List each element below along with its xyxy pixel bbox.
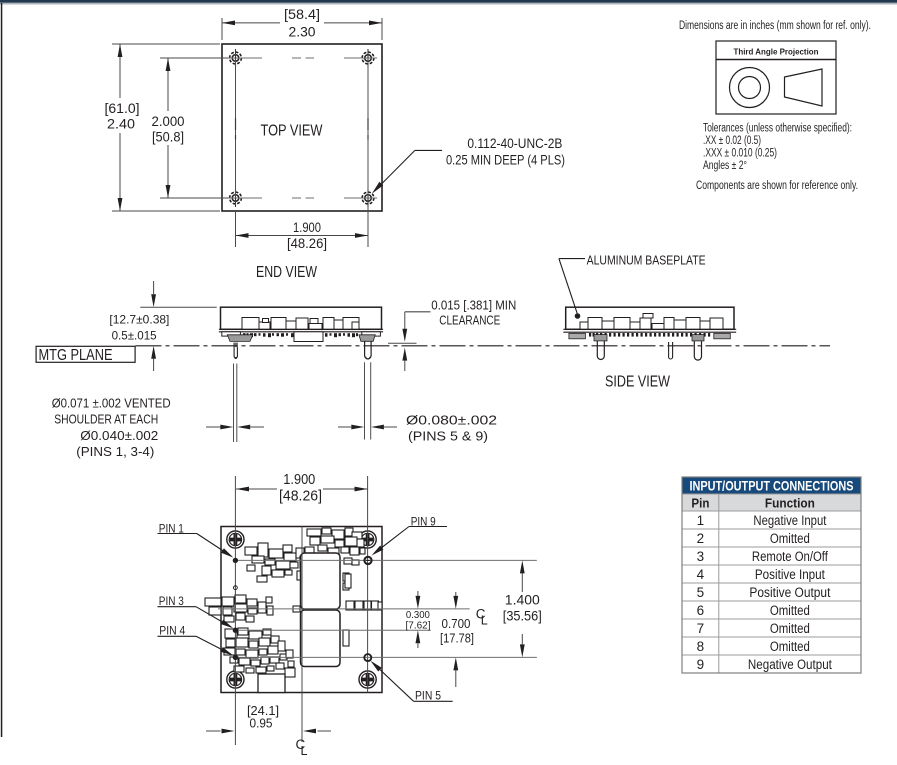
svg-text:Positive Output: Positive Output — [749, 585, 830, 600]
svg-text:Positive Input: Positive Input — [755, 567, 825, 582]
svg-text:Negative Output: Negative Output — [748, 657, 832, 672]
pin 4 pad — [233, 655, 238, 660]
svg-text:0.015 [.381] MIN: 0.015 [.381] MIN — [431, 299, 516, 313]
end view pin 9 (0.080 dia) — [359, 335, 375, 440]
dimension [61.0] 2.40 — [102, 44, 220, 211]
bottom connector block — [258, 674, 285, 693]
mounting hole bottom-right (top view) — [359, 189, 377, 207]
svg-text:SHOULDER AT EACH: SHOULDER AT EACH — [54, 412, 158, 427]
end view pin 1 (0.040 dia) — [227, 335, 253, 442]
pin 5 pad — [364, 654, 371, 661]
vertical line through pins 1,3,4 — [234, 476, 236, 745]
svg-text:PIN 5: PIN 5 — [415, 691, 441, 703]
dimension 2.000 [50.8] — [149, 58, 228, 198]
mounting hole bottom-left (top view) — [227, 189, 245, 207]
svg-text:[48.26]: [48.26] — [279, 489, 322, 505]
svg-text:Pin: Pin — [691, 496, 709, 511]
label PIN 3 with leader — [158, 596, 234, 629]
svg-text:[50.8]: [50.8] — [152, 130, 184, 145]
svg-text:[48.26]: [48.26] — [287, 236, 327, 251]
svg-text:3: 3 — [697, 549, 705, 564]
mounting hole top-left (top view) — [227, 49, 245, 67]
centerline symbol right — [476, 607, 488, 628]
center lines top view — [236, 58, 369, 198]
label PIN 1 with leader — [158, 523, 234, 557]
dimension pin 9 diameter arrows — [338, 425, 397, 430]
side view pin left — [594, 335, 607, 360]
svg-text:L: L — [481, 614, 488, 628]
svg-text:[17.78]: [17.78] — [440, 631, 474, 646]
svg-text:0.95: 0.95 — [250, 716, 273, 731]
side view solder pads — [589, 333, 710, 337]
svg-text:L: L — [301, 744, 308, 758]
transformer outline — [301, 553, 341, 667]
dimension 0.015 min clearance — [388, 299, 516, 372]
MTG plane line — [136, 345, 831, 347]
svg-text:Ø0.080±.002: Ø0.080±.002 — [406, 413, 497, 428]
svg-text:END VIEW: END VIEW — [256, 264, 317, 281]
side view flange — [563, 329, 736, 339]
svg-text:0.112-40-UNC-2B: 0.112-40-UNC-2B — [467, 136, 562, 151]
end view solder pads under flange — [243, 333, 358, 337]
svg-text:1.900: 1.900 — [283, 472, 315, 488]
end view flange — [219, 329, 383, 341]
dimension 0.700 [17.78] — [440, 592, 474, 687]
dimension [58.4] 2.30 — [222, 6, 382, 40]
svg-text:Components are shown for refer: Components are shown for reference only. — [696, 180, 858, 192]
mounting screw bottom-left (bottom view) — [227, 671, 244, 688]
svg-text:[61.0]: [61.0] — [105, 101, 140, 116]
svg-text:Dimensions are in inches (mm s: Dimensions are in inches (mm shown for r… — [679, 20, 871, 32]
svg-text:SIDE VIEW: SIDE VIEW — [605, 374, 670, 391]
svg-text:PIN 3: PIN 3 — [159, 596, 184, 608]
svg-text:CLEARANCE: CLEARANCE — [439, 314, 500, 328]
label PIN 5 with leader — [371, 661, 453, 703]
svg-text:Omitted: Omitted — [770, 639, 810, 654]
svg-text:9: 9 — [697, 657, 705, 672]
side view pin right — [692, 335, 704, 360]
side view module body — [566, 307, 734, 329]
svg-text:Omitted: Omitted — [770, 621, 810, 636]
dimension pin 1 diameter arrows — [206, 425, 264, 430]
svg-text:[12.7±0.38]: [12.7±0.38] — [109, 313, 169, 327]
svg-text:Negative Input: Negative Input — [753, 513, 826, 528]
mounting hole top-right (top view) — [359, 49, 377, 67]
svg-text:0.700: 0.700 — [442, 616, 471, 631]
svg-text:TOP VIEW: TOP VIEW — [261, 123, 323, 140]
vertical centerline bottom view — [301, 527, 303, 743]
svg-text:[35.56]: [35.56] — [503, 609, 542, 624]
svg-text:0.5±.015: 0.5±.015 — [112, 329, 157, 343]
callout aluminum baseplate — [559, 253, 706, 319]
dimension 1.400 [35.56] — [503, 560, 542, 657]
svg-text:(PINS 1, 3-4): (PINS 1, 3-4) — [76, 444, 154, 459]
svg-text:ALUMINUM BASEPLATE: ALUMINUM BASEPLATE — [587, 253, 706, 268]
svg-text:1.400: 1.400 — [505, 593, 540, 608]
svg-text:5: 5 — [697, 585, 705, 600]
svg-text:2.40: 2.40 — [107, 117, 135, 132]
svg-text:(PINS 5 & 9): (PINS 5 & 9) — [408, 429, 488, 444]
svg-text:Function: Function — [765, 496, 815, 511]
end view module body — [221, 307, 382, 329]
bottom view outline — [221, 527, 382, 693]
svg-text:Third Angle Projection: Third Angle Projection — [734, 47, 819, 57]
svg-text:PIN 4: PIN 4 — [159, 626, 186, 638]
dimension 0.300 [7.62] — [406, 591, 431, 648]
pin 3 pad — [233, 628, 238, 633]
centerline symbol bottom — [296, 737, 308, 758]
svg-text:1: 1 — [697, 513, 705, 528]
side view pin middle — [669, 342, 673, 359]
bottom view component clusters — [205, 528, 382, 677]
tolerances note — [703, 123, 852, 173]
callout 0.080 dia text — [406, 413, 497, 444]
svg-text:1.900: 1.900 — [293, 220, 321, 235]
svg-text:4: 4 — [697, 567, 705, 582]
MTG PLANE label box — [36, 346, 135, 364]
third angle projection box — [716, 41, 836, 114]
dimension 1.900 [48.26] bottom view — [236, 471, 368, 505]
label PIN 4 with leader — [158, 626, 234, 656]
svg-text:0.25 MIN DEEP (4 PLS): 0.25 MIN DEEP (4 PLS) — [446, 153, 565, 168]
label PIN 9 with leader — [372, 516, 448, 555]
dimension [12.7] 0.5 module height — [109, 281, 216, 371]
dimension 1.900 [48.26] top view — [236, 204, 369, 251]
svg-text:Ø0.040±.002: Ø0.040±.002 — [80, 428, 158, 443]
svg-text:INPUT/OUTPUT CONNECTIONS: INPUT/OUTPUT CONNECTIONS — [690, 479, 854, 494]
dimension [24.1] 0.95 — [206, 703, 331, 733]
input/output connections table — [682, 477, 861, 673]
svg-text:[7.62]: [7.62] — [406, 620, 431, 632]
svg-text:Omitted: Omitted — [770, 603, 810, 618]
svg-text:.XX ± 0.02 (0.5): .XX ± 0.02 (0.5) — [703, 135, 761, 147]
svg-text:[58.4]: [58.4] — [284, 7, 320, 22]
svg-text:6: 6 — [697, 603, 705, 618]
vertical line through pins 9,5 — [367, 476, 369, 693]
pin 1 pad — [233, 558, 238, 563]
mounting screw top-left (bottom view) — [227, 531, 244, 548]
pin 3 row line — [237, 629, 431, 631]
svg-text:7: 7 — [697, 621, 705, 636]
svg-text:Angles ± 2°: Angles ± 2° — [703, 160, 747, 172]
svg-text:2.30: 2.30 — [289, 25, 316, 40]
svg-text:Ø0.071 ±.002 VENTED: Ø0.071 ±.002 VENTED — [52, 396, 171, 411]
callout 0.071 vented shoulder text — [52, 396, 171, 460]
svg-text:Omitted: Omitted — [770, 531, 810, 546]
svg-text:2.000: 2.000 — [152, 114, 185, 129]
svg-text:Tolerances (unless otherwise s: Tolerances (unless otherwise specified): — [703, 123, 852, 135]
horizontal centerline row — [218, 608, 470, 610]
side view internal components — [580, 314, 723, 330]
svg-text:Remote On/Off: Remote On/Off — [752, 549, 828, 564]
page left border line — [1, 3, 3, 737]
mounting screw top-right (bottom view) — [359, 531, 376, 548]
svg-text:8: 8 — [697, 639, 705, 654]
callout thread spec 0.112-40-UNC-2B — [372, 136, 565, 194]
svg-text:2: 2 — [697, 531, 705, 546]
pin 2 omitted hole — [234, 586, 238, 590]
pin 9 pad — [364, 557, 371, 564]
svg-text:.XXX ± 0.010 (0.25): .XXX ± 0.010 (0.25) — [703, 148, 777, 160]
end view internal components — [242, 318, 359, 330]
top view outline — [222, 44, 382, 211]
svg-text:MTG PLANE: MTG PLANE — [39, 347, 113, 364]
pin 4-5 row line — [237, 656, 537, 658]
mounting screw bottom-right (bottom view) — [359, 671, 376, 688]
page top navy bar — [0, 0, 897, 3]
pin 1-9 row line — [237, 559, 537, 561]
